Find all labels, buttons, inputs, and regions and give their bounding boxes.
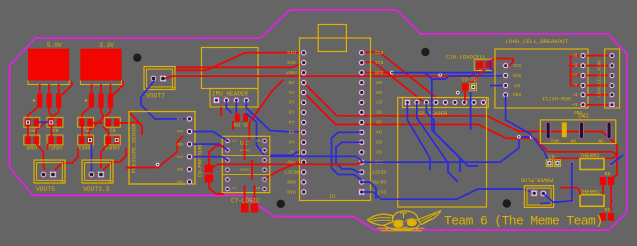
svg-text:D5: D5 xyxy=(376,119,382,125)
wire: diagonal feed to Q1 xyxy=(62,81,72,95)
silk bracket under 3.3V zone xyxy=(80,81,121,85)
svg-text:A2: A2 xyxy=(289,99,295,105)
svg-text:C7-LOGIC: C7-LOGIC xyxy=(231,197,260,204)
svg-text:GND: GND xyxy=(513,91,522,97)
svg-text:D7: D7 xyxy=(376,99,382,105)
mounting hole bottom-left xyxy=(277,200,285,208)
capacitor C9 pad 1 xyxy=(205,164,213,172)
connector SD_HEADER xyxy=(402,98,488,108)
wire: VOUT3.3 pad right exit xyxy=(103,148,126,170)
wire: red E stubs xyxy=(586,94,596,96)
via on 5V rail xyxy=(438,73,442,77)
thermistor THERM1 body xyxy=(580,195,604,207)
wire: red to D13 xyxy=(176,53,304,71)
capacitor C10 pad 1 xyxy=(476,61,483,68)
svg-text:LOAD_CELL_BREAKOUT: LOAD_CELL_BREAKOUT xyxy=(506,38,569,45)
svg-text:3.3V: 3.3V xyxy=(99,42,114,49)
module IMU body xyxy=(202,48,259,89)
wire: Q2 pins down to R1/R2 xyxy=(82,106,92,119)
resistor R3 xyxy=(24,117,40,127)
resistor R2 xyxy=(104,117,120,127)
wire: blue U2 to sensor xyxy=(193,132,228,141)
wire: red inside sensor xyxy=(130,113,142,135)
svg-text:Chan2: Chan2 xyxy=(240,167,251,172)
wire: blue plug to therm xyxy=(543,194,560,203)
capacitor C9 pad 2 xyxy=(205,174,213,182)
svg-text:A1: A1 xyxy=(289,89,295,95)
capacitor 10UF2 xyxy=(47,135,63,145)
svg-text:R3: R3 xyxy=(29,127,35,133)
module LOAD_CELL_BREAKOUT body xyxy=(495,49,588,108)
wire: 5V rail long red xyxy=(165,69,479,79)
thermistor THERM2 body xyxy=(580,159,604,170)
wire: caps down to VOUT3.3 xyxy=(101,144,109,169)
via left of C6 xyxy=(456,91,460,95)
svg-text:D6: D6 xyxy=(376,109,382,115)
wire: C10 right pad diag to C6 xyxy=(469,69,486,85)
capacitor C10 silk box xyxy=(474,59,495,70)
U2 pads left column xyxy=(225,138,231,144)
svg-text:3V3: 3V3 xyxy=(287,59,296,65)
switch SW2 body xyxy=(540,120,615,144)
svg-text:E-: E- xyxy=(572,91,578,97)
copper zone 5.0V xyxy=(28,49,69,81)
svg-text:GND: GND xyxy=(287,178,296,184)
capacitor C5 pad 1 xyxy=(546,160,552,167)
wire: blue U1 bottom rows right xyxy=(362,137,532,162)
svg-text:10UF: 10UF xyxy=(26,144,38,150)
resistor R6 pads xyxy=(600,177,606,185)
svg-text:5.0V: 5.0V xyxy=(47,42,62,49)
svg-text:A3: A3 xyxy=(289,109,295,115)
svg-text:SDI: SDI xyxy=(177,179,183,183)
wire: blue hook left of VCC xyxy=(490,60,494,71)
capacitor C7 pad 2 xyxy=(251,204,258,213)
svg-text:POWER_PLUG: POWER_PLUG xyxy=(521,177,553,183)
svg-text:D11: D11 xyxy=(375,59,384,65)
svg-text:D4: D4 xyxy=(376,129,382,135)
capacitor C6 pad 2 (through) xyxy=(470,83,477,90)
svg-text:3Vo: 3Vo xyxy=(177,128,183,132)
wire: caps down to VOUT5 xyxy=(36,144,45,171)
mounting hole bottom-right xyxy=(503,199,511,207)
svg-text:A4: A4 xyxy=(289,119,295,125)
wire: red D11 to SD pad3 xyxy=(362,62,427,104)
wire: C6 left pad to SD pad xyxy=(463,91,466,102)
IC U1 module outline xyxy=(300,38,371,201)
capacitor C5 pad 2 xyxy=(554,160,560,167)
svg-text:AREF: AREF xyxy=(286,69,298,75)
wire: regulator Q1 pins to 5.0V zone xyxy=(39,84,41,95)
svg-text:E+: E+ xyxy=(572,101,578,107)
wire: R1 to R2 link xyxy=(90,122,103,124)
wire: Q1 pins down to R3/R4 xyxy=(28,106,40,119)
wire: blue drop to VOUT3.3 xyxy=(91,144,93,171)
svg-text:R6: R6 xyxy=(605,172,611,178)
silk dot Q1 pin1 xyxy=(33,99,35,101)
connector VOUT7 xyxy=(144,67,175,90)
wire: blue below C6 xyxy=(470,92,472,130)
U2 pads right column xyxy=(262,138,268,144)
svg-text:B-: B- xyxy=(572,62,578,68)
svg-text:GND: GND xyxy=(177,141,183,145)
svg-text:VOUT5: VOUT5 xyxy=(36,186,55,193)
svg-text:A6: A6 xyxy=(289,139,295,145)
svg-text:SCK: SCK xyxy=(176,153,183,157)
logo grogu xyxy=(368,211,441,231)
wire: VOUT5 pad right exit xyxy=(55,148,78,170)
breakout left pads xyxy=(502,62,509,69)
svg-text:A+: A+ xyxy=(572,71,578,77)
svg-text:LOAD_CELL_PLUG: LOAD_CELL_PLUG xyxy=(598,60,603,97)
connector LOAD_CELL_PLUG xyxy=(605,49,620,108)
svg-text:PRESSURE_SENSOR: PRESSURE_SENSOR xyxy=(131,122,138,173)
connector POWER_PLUG body xyxy=(524,186,553,208)
wire: red IMU to U2 top xyxy=(249,80,283,140)
svg-text:VOUT3.3: VOUT3.3 xyxy=(83,186,110,193)
wire: red U2 to C7 pads xyxy=(244,185,246,204)
svg-text:XFW-HX711: XFW-HX711 xyxy=(542,95,571,101)
wire: blue therm links xyxy=(571,164,573,201)
via on sensor trace xyxy=(156,163,160,167)
wire: red U2 to +5V xyxy=(266,162,304,178)
wire: blue vertical through SD pads xyxy=(432,96,460,172)
svg-text:R1: R1 xyxy=(83,127,89,133)
wire: red return to C5 xyxy=(548,152,618,164)
svg-text:C5-IMU: C5-IMU xyxy=(232,121,250,127)
svg-text:A7: A7 xyxy=(289,148,295,154)
capacitor C6 pad 1 xyxy=(462,83,469,90)
svg-text:R4: R4 xyxy=(52,127,58,133)
svg-text:D10: D10 xyxy=(375,69,384,75)
svg-text:VOUT7: VOUT7 xyxy=(146,93,165,100)
svg-text:D3: D3 xyxy=(376,139,382,145)
capacitor 10UF3 xyxy=(78,135,94,145)
via on D10 net xyxy=(390,71,394,75)
SW2 actuator bar xyxy=(562,123,567,138)
svg-text:U1: U1 xyxy=(329,193,335,199)
svg-text:D12: D12 xyxy=(375,49,384,55)
wire: red D12 to SD pad4 xyxy=(362,52,436,102)
wire: blue D10 net onward xyxy=(392,72,493,74)
U1 pads right column xyxy=(358,49,365,56)
silk bracket under 5.0V zone xyxy=(28,81,69,85)
svg-text:R2: R2 xyxy=(109,127,115,133)
svg-text:VIN: VIN xyxy=(177,116,183,120)
capacitor C7 pad 1 xyxy=(241,204,248,213)
svg-text:VCC: VCC xyxy=(513,62,522,68)
capacitor C5-IMU pads xyxy=(235,114,240,122)
wire: blue SD pads down xyxy=(417,104,458,182)
wire: blue to SCK xyxy=(432,76,506,80)
svg-text:VIN: VIN xyxy=(287,188,296,194)
regulator Q1 pads xyxy=(37,94,42,108)
wire: red breakout to plug xyxy=(586,55,609,57)
capacitor 10UF4 xyxy=(104,135,120,145)
wire: long red mid rail 2 (A4 to C5 loop) xyxy=(304,93,612,152)
vias around thermistors xyxy=(570,162,575,167)
wire: red C9 to U1 GND xyxy=(211,162,362,168)
SW2 slot pads xyxy=(546,121,551,139)
capacitor C10 pad 2 xyxy=(486,61,493,68)
svg-text:RESET: RESET xyxy=(372,168,387,174)
svg-text:10UF2: 10UF2 xyxy=(48,144,63,150)
resistor R5 pads xyxy=(600,213,606,221)
wire: blue D4/D3 loops xyxy=(332,132,362,180)
svg-text:A0: A0 xyxy=(289,79,295,85)
wire: red stubs to load cell pads xyxy=(570,56,572,86)
resistor R1 xyxy=(78,117,94,127)
wire: long red mid rail 1 (A3 to therm) xyxy=(304,83,617,178)
copper zone 3.3V xyxy=(80,49,121,81)
wire: red U2 internal verticals xyxy=(244,140,246,160)
connector VOUT3.3 xyxy=(82,160,113,183)
svg-text:COM: COM xyxy=(551,139,560,145)
svg-text:NO: NO xyxy=(571,139,577,145)
U1 USB connector outline xyxy=(318,25,346,52)
svg-text:B+: B+ xyxy=(572,52,578,58)
SD header pads xyxy=(404,99,411,106)
svg-text:D0/RX: D0/RX xyxy=(372,178,387,184)
mounting hole top-left xyxy=(133,54,141,62)
pressure sensor pads J? xyxy=(186,116,193,123)
via pair on GND net xyxy=(517,135,521,139)
wire: blue VOUT7 to sensor xyxy=(141,81,186,119)
breakout right pads xyxy=(580,52,587,59)
svg-text:Team 6 (The Meme Team): Team 6 (The Meme Team) xyxy=(444,214,602,229)
wire: R2 to pressure sensor xyxy=(116,122,140,124)
wire: red verticals under IMU xyxy=(220,107,222,116)
connector IMU_HEADER xyxy=(210,89,258,108)
module PRESSURE_SENSOR body xyxy=(129,112,195,185)
module SD body xyxy=(398,98,487,208)
svg-text:D13: D13 xyxy=(287,49,296,55)
wire: R-to-C column links xyxy=(27,126,29,136)
wire: red therm loop xyxy=(602,185,604,195)
svg-text:D2: D2 xyxy=(376,148,382,154)
svg-text:D9: D9 xyxy=(376,79,382,85)
svg-text:RESET: RESET xyxy=(284,168,299,174)
svg-text:C9-PRESSURE: C9-PRESSURE xyxy=(198,143,204,177)
IC U2 body xyxy=(222,136,269,192)
svg-text:DT: DT xyxy=(514,82,520,88)
wire: blue link R3-R4 xyxy=(37,121,49,123)
svg-text:SCK: SCK xyxy=(513,72,522,78)
wire: blue DT left xyxy=(490,85,503,87)
svg-text:NC: NC xyxy=(599,139,605,145)
svg-text:IMU_HEADER: IMU_HEADER xyxy=(212,91,248,98)
POWER_PLUG pads xyxy=(531,190,538,197)
svg-text:SD_HEADER: SD_HEADER xyxy=(418,111,448,117)
IMU header pads xyxy=(213,97,220,104)
wire: red to 3V3 xyxy=(176,63,304,68)
silk dot Q2 pin1 xyxy=(85,99,87,101)
wire: blue GND down to C5/SW xyxy=(506,95,548,160)
svg-text:D8: D8 xyxy=(376,89,382,95)
wire: regulator Q2 pins to 3.3V zone xyxy=(91,84,93,95)
svg-text:R5: R5 xyxy=(605,208,611,214)
U2 divider lines xyxy=(222,154,269,156)
regulator Q2 pads xyxy=(89,94,94,108)
wire: IMU pads down blue xyxy=(226,100,232,113)
wire: blue mid to GND xyxy=(270,156,362,160)
connector VOUT5 xyxy=(34,160,65,183)
U1 pads left column xyxy=(300,49,307,56)
svg-text:SDO: SDO xyxy=(177,166,183,170)
capacitor 10UF xyxy=(24,135,40,145)
svg-text:C6-SD: C6-SD xyxy=(462,77,478,83)
wire: red C9 to U2 xyxy=(209,146,224,164)
svg-text:A5: A5 xyxy=(289,129,295,135)
wire: red D10 stub to via xyxy=(362,72,392,74)
wire: C10 to VCC xyxy=(489,59,513,66)
mounting hole top-right xyxy=(421,48,429,56)
resistor R4 xyxy=(47,117,63,127)
svg-text:SW2: SW2 xyxy=(578,113,589,120)
svg-text:A-: A- xyxy=(572,81,578,87)
